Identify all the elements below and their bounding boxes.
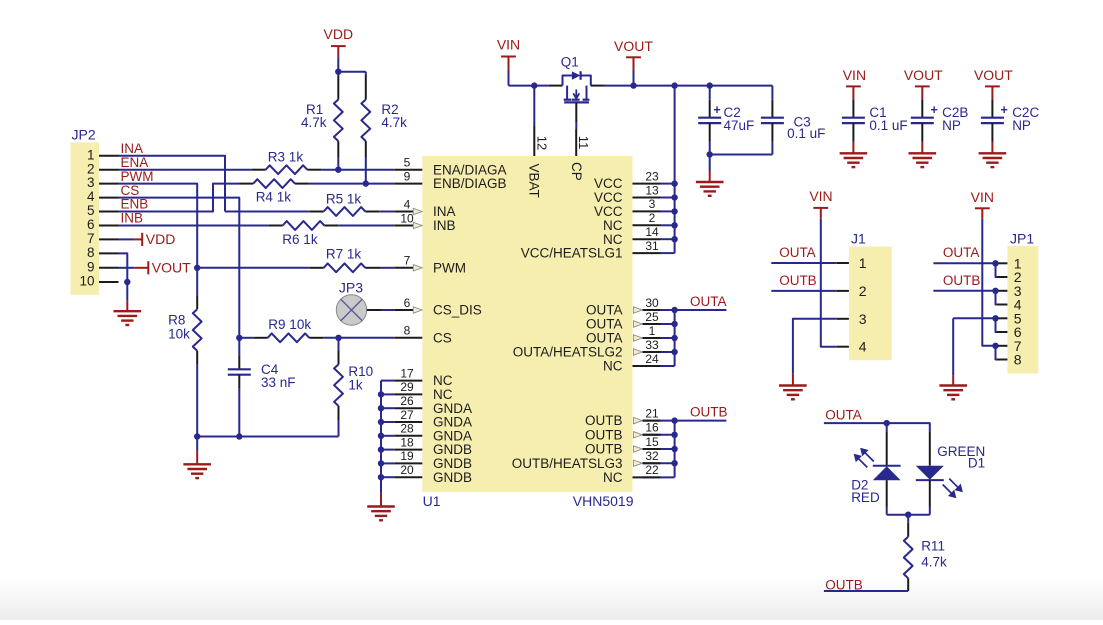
svg-text:0.1 uF: 0.1 uF <box>787 126 825 141</box>
junction VDD R1 <box>335 69 341 75</box>
svg-text:INB: INB <box>433 218 456 233</box>
U1 pin 21 wire <box>643 420 675 422</box>
wire PWM junction to R7 <box>197 267 310 269</box>
svg-text:0.1 uF: 0.1 uF <box>869 118 907 133</box>
resistor R11 lead top <box>907 523 909 537</box>
ground stub JP1 <box>952 375 954 385</box>
IC U1 body <box>422 156 632 492</box>
svg-text:22: 22 <box>645 463 659 477</box>
wire OUTB from bus <box>675 420 727 422</box>
capacitor C2 lead bottom <box>709 123 711 141</box>
JP1 pin 8 stub <box>997 359 1008 361</box>
U1 pin 28 stub <box>394 435 422 437</box>
svg-text:GNDB: GNDB <box>433 456 472 471</box>
svg-text:13: 13 <box>645 183 659 197</box>
connector JP1 body <box>1007 246 1038 374</box>
junction JP2-10 <box>124 279 130 285</box>
capacitor C1 lead bottom <box>852 123 854 142</box>
transistor Q1 channel contacts <box>566 86 568 99</box>
svg-text:VCC/HEATSLG1: VCC/HEATSLG1 <box>521 246 623 261</box>
wire INA to R5 <box>225 211 310 213</box>
supply stub C2B <box>921 86 923 99</box>
wire rail VIN to Q1 <box>509 85 549 87</box>
svg-text:NC: NC <box>603 232 623 247</box>
U1 pin 28 wire <box>381 435 394 437</box>
svg-text:JP3: JP3 <box>339 279 363 295</box>
svg-text:16: 16 <box>645 421 659 435</box>
capacitor C2B lead top <box>921 99 923 117</box>
svg-text:INB: INB <box>121 211 144 226</box>
svg-text:9: 9 <box>87 259 95 274</box>
VIN supply stub JP1 <box>981 208 983 219</box>
bottom page-edge shading <box>0 578 1103 620</box>
wire JP3 to U1 pin6 <box>367 309 381 311</box>
LED D1 triangle <box>916 466 944 480</box>
junction GND bus 20 <box>378 474 384 480</box>
svg-text:33: 33 <box>645 338 659 352</box>
LED D1 cathode bar <box>916 479 944 481</box>
U1 pin 30 arrow <box>634 307 643 313</box>
ground stub JP2 <box>126 300 128 311</box>
JP2 pin 1 stub <box>99 155 119 157</box>
U1 pin 32 wire <box>643 462 675 464</box>
J1 pin 3 stub <box>837 318 849 320</box>
transistor Q1 body-diode bar <box>579 71 581 80</box>
wire PWM JP2-3 east then south to R7 row <box>119 184 198 268</box>
resistor R8 lead top <box>196 295 198 309</box>
wire JP1-7 to JP1-8 <box>996 346 997 360</box>
U1 pin 18 wire <box>381 449 394 451</box>
U1 pin 30 wire <box>643 309 675 311</box>
svg-text:4.7k: 4.7k <box>381 115 407 130</box>
U1 pin 11 stub <box>575 129 577 156</box>
VCC bus vertical <box>674 86 676 254</box>
ground left rail <box>183 463 211 465</box>
svg-text:OUTB: OUTB <box>690 404 728 419</box>
resistor R5 lead right <box>365 211 379 213</box>
U1 pin 15 wire <box>643 448 675 450</box>
junction JP1-7 <box>992 343 998 349</box>
svg-text:U1: U1 <box>423 493 441 509</box>
U1 pin 30 stub <box>643 309 661 311</box>
capacitor C2B <box>911 117 934 119</box>
wire VOUT down to rail <box>633 71 635 86</box>
LED D2 lead bottom <box>886 480 888 506</box>
svg-text:11: 11 <box>576 136 591 150</box>
svg-text:OUTA: OUTA <box>586 317 623 332</box>
svg-text:25: 25 <box>645 310 659 324</box>
svg-text:VDD: VDD <box>146 231 176 247</box>
svg-text:OUTA: OUTA <box>825 407 862 422</box>
VDD supply bar top <box>331 45 346 47</box>
svg-text:VOUT: VOUT <box>152 259 191 275</box>
VDD terminal bar <box>141 233 143 246</box>
junction GND bus 28 <box>378 433 384 439</box>
junction C2 ground <box>707 151 713 157</box>
wire Q1 gate to CP <box>575 102 577 122</box>
svg-text:R5 1k: R5 1k <box>326 191 362 206</box>
U1 pin 8 stub <box>394 337 422 339</box>
svg-text:CS: CS <box>433 330 452 345</box>
svg-text:NC: NC <box>603 359 623 374</box>
U1 pin 32 arrow <box>634 460 643 466</box>
svg-text:6: 6 <box>87 217 95 232</box>
svg-text:OUTA: OUTA <box>586 303 623 318</box>
resistor R9 <box>268 333 310 342</box>
junction GND bus 29 <box>378 391 384 397</box>
VOUT supply bar <box>626 56 641 58</box>
svg-text:30: 30 <box>645 296 659 310</box>
svg-text:NC: NC <box>603 470 623 485</box>
svg-text:OUTB: OUTB <box>779 273 817 288</box>
U1 pin 22 wire <box>643 476 675 478</box>
wire C2 C3 bottoms <box>710 154 773 156</box>
U1 pin 22 stub <box>633 476 661 478</box>
svg-text:NC: NC <box>433 373 453 388</box>
ground stub left rail <box>196 451 198 465</box>
svg-text:ENA: ENA <box>121 155 149 170</box>
wire rail VOUT to C3 <box>634 85 773 87</box>
U1 pin 9 stub <box>394 183 422 185</box>
svg-text:29: 29 <box>400 380 414 394</box>
svg-text:1: 1 <box>649 324 656 338</box>
svg-text:R7 1k: R7 1k <box>326 246 362 261</box>
U1 pin 23 stub <box>633 183 661 185</box>
resistor R10 <box>334 364 343 406</box>
svg-text:2: 2 <box>87 161 95 176</box>
VDD terminal stub <box>134 238 142 240</box>
svg-text:23: 23 <box>645 169 659 183</box>
wire OUTA to J1-1 <box>771 262 836 264</box>
svg-text:INA: INA <box>121 141 144 156</box>
VIN supply bar C1 <box>846 85 861 87</box>
svg-text:17: 17 <box>400 366 414 380</box>
JP1 pin 4 stub <box>997 304 1008 306</box>
U1 pin 1 stub <box>643 337 661 339</box>
junction VCC bus 2 <box>671 222 677 228</box>
transistor Q1 channel feet <box>564 99 572 101</box>
wire PWM junction to R8 <box>196 268 198 295</box>
svg-text:NP: NP <box>942 118 961 133</box>
svg-text:GNDA: GNDA <box>433 415 472 430</box>
resistor R4 lead right <box>295 183 309 185</box>
wire JP2-9 to VOUT terminal <box>119 267 135 269</box>
svg-text:19: 19 <box>400 449 414 463</box>
U1 pin 14 stub <box>633 238 661 240</box>
U1 pin 6 arrow <box>413 307 422 313</box>
U1 pin 13 stub <box>633 197 661 199</box>
resistor R8 <box>193 309 202 351</box>
resistor R2 <box>361 100 370 142</box>
VOUT supply bar C2B <box>915 85 930 87</box>
JP2 pin 2 stub <box>99 169 119 171</box>
wire OUTA LED top <box>824 423 930 432</box>
JP1 pin 7 stub <box>997 345 1008 347</box>
resistor R4 lead left <box>240 183 254 185</box>
svg-text:+: + <box>713 103 720 117</box>
svg-text:OUTB: OUTB <box>585 413 623 428</box>
U1 pin 13 wire <box>661 197 675 199</box>
U1 pin 20 stub <box>394 476 422 478</box>
connector JP2 body <box>71 142 99 294</box>
junction VCC bus 14 <box>671 236 677 242</box>
U1 pin 33 stub <box>643 351 661 353</box>
resistor R1 lead top <box>337 76 339 100</box>
wire JP1-5 to JP1-6 <box>996 318 997 332</box>
svg-text:NP: NP <box>1012 118 1031 133</box>
wire JP1 ground drop <box>952 318 954 375</box>
U1 pin 23 wire <box>661 183 675 185</box>
svg-text:5: 5 <box>404 156 411 170</box>
resistor R11 <box>904 537 913 579</box>
junction OUTA bus 33 <box>671 349 677 355</box>
svg-text:VIN: VIN <box>843 67 866 83</box>
U1 pin 10 stub <box>394 225 413 227</box>
svg-text:GNDB: GNDB <box>433 470 472 485</box>
svg-text:Q1: Q1 <box>561 55 579 70</box>
svg-text:PWM: PWM <box>121 169 154 184</box>
wire R4 to U1 pin9 <box>309 183 394 185</box>
wire J1-3 to ground <box>793 319 837 374</box>
resistor R4 <box>253 179 295 188</box>
svg-text:4.7k: 4.7k <box>301 115 327 130</box>
junction LED R11 <box>905 512 911 518</box>
wire JP1-1 to JP1-2 <box>996 263 997 277</box>
svg-text:OUTA/HEATSLG2: OUTA/HEATSLG2 <box>513 345 623 360</box>
U1 pin 19 stub <box>394 462 422 464</box>
junction rail C2 <box>707 82 713 88</box>
capacitor C3 lead top <box>771 86 773 100</box>
svg-text:1: 1 <box>87 147 95 162</box>
svg-text:ENB/DIAGB: ENB/DIAGB <box>433 176 507 191</box>
junction R1 ENA <box>335 167 341 173</box>
U1 pin 26 wire <box>381 407 394 409</box>
svg-text:6: 6 <box>404 296 411 310</box>
U1 pin 2 wire <box>661 224 675 226</box>
JP2 pin 4 stub <box>99 197 119 199</box>
junction OUTA bus 1 <box>671 335 677 341</box>
svg-text:+: + <box>1001 103 1008 117</box>
svg-text:2: 2 <box>649 211 656 225</box>
svg-text:1: 1 <box>859 255 867 271</box>
transistor Q1 body-diode triangle <box>572 71 581 79</box>
wire OUTB to JP1-3 <box>933 290 996 292</box>
VOUT supply stub <box>633 57 635 70</box>
VIN supply stub J1 <box>820 208 822 219</box>
wire OUTB LED bottom <box>824 590 908 592</box>
wire INB JP2-6 to R6 <box>119 225 269 227</box>
VIN supply bar J1 <box>813 207 828 209</box>
svg-text:ENB: ENB <box>121 197 149 212</box>
svg-text:VCC: VCC <box>594 176 623 191</box>
JP1 pin 1 stub <box>997 262 1008 264</box>
junction OUTA D2 <box>884 420 890 426</box>
svg-text:8: 8 <box>87 245 95 260</box>
capacitor C2C <box>981 117 1004 119</box>
resistor R5 <box>324 207 366 216</box>
svg-text:OUTB/HEATSLG3: OUTB/HEATSLG3 <box>512 456 623 471</box>
svg-text:14: 14 <box>645 225 659 239</box>
ground JP1 <box>939 384 967 386</box>
U1 pin 33 arrow <box>634 349 643 355</box>
wire R5 to U1 pin4 <box>379 211 394 213</box>
LED D2 light arrows <box>855 449 874 467</box>
junction rail C4 <box>236 433 242 439</box>
wire rail to ground <box>196 437 198 451</box>
supply stub C1 <box>852 86 854 99</box>
U1 pin 7 stub <box>394 267 413 269</box>
capacitor C3 lead bottom <box>771 123 773 141</box>
junction rail VOUT <box>630 82 636 88</box>
junction OUTB bus 21 <box>671 417 677 423</box>
svg-text:10k: 10k <box>168 326 190 341</box>
wire VDD to R1 R2 <box>338 72 366 76</box>
svg-text:GNDB: GNDB <box>433 442 472 457</box>
transistor Q1 source lead <box>549 85 563 87</box>
svg-text:R6 1k: R6 1k <box>282 232 318 247</box>
svg-text:VOUT: VOUT <box>614 38 653 54</box>
svg-text:OUTA: OUTA <box>779 245 816 260</box>
U1 pin 29 stub <box>394 393 422 395</box>
ground stub C2B <box>921 142 923 153</box>
svg-text:R4 1k: R4 1k <box>256 190 292 205</box>
wire R6 to U1 pin10 <box>338 225 394 227</box>
svg-text:JP2: JP2 <box>72 127 96 143</box>
U1 pin 26 stub <box>394 407 422 409</box>
VOUT terminal bar <box>147 261 149 274</box>
junction CS C4 <box>236 335 242 341</box>
U1 pin 3 stub <box>633 210 661 212</box>
svg-text:32: 32 <box>645 449 659 463</box>
svg-text:1k: 1k <box>348 378 363 393</box>
svg-text:15: 15 <box>645 435 659 449</box>
svg-text:R3 1k: R3 1k <box>268 150 304 165</box>
junction JP1-5 <box>992 315 998 321</box>
capacitor C4 lead top <box>238 338 240 356</box>
svg-text:OUTB: OUTB <box>943 273 981 288</box>
U1 pin 2 stub <box>633 224 661 226</box>
junction rail VCC bus <box>671 82 677 88</box>
JP2 pin 7 stub <box>99 238 119 240</box>
U1 pin 29 wire <box>381 393 394 395</box>
JP1 pin 6 stub <box>997 331 1008 333</box>
svg-text:4.7k: 4.7k <box>921 555 947 570</box>
transistor Q1 drain lead <box>591 85 604 87</box>
U1 pin 32 stub <box>643 462 661 464</box>
wire VIN to JP1-7 <box>982 219 996 346</box>
svg-text:VCC: VCC <box>594 204 623 219</box>
svg-text:3: 3 <box>87 175 95 190</box>
junction VCC bus 13 <box>671 194 677 200</box>
svg-text:4: 4 <box>404 197 411 211</box>
wire R3 to U1 pin5 <box>321 169 394 171</box>
resistor R7 <box>324 263 366 272</box>
svg-text:CP: CP <box>569 162 584 181</box>
junction OUTB bus 32 <box>671 460 677 466</box>
svg-text:VBAT: VBAT <box>527 164 542 198</box>
resistor R9 lead right <box>309 337 323 339</box>
junction JP1-1 <box>992 260 998 266</box>
svg-text:CS: CS <box>121 183 140 198</box>
JP1 pin 5 stub <box>997 317 1008 319</box>
U1 pin 21 arrow <box>634 417 643 423</box>
U1 pin 24 stub <box>633 365 661 367</box>
wire C2 junction to ground <box>709 155 711 172</box>
junction OUTA bus 25 <box>671 321 677 327</box>
capacitor C2 <box>698 117 721 119</box>
svg-text:33 nF: 33 nF <box>261 375 296 390</box>
svg-text:3: 3 <box>649 197 656 211</box>
ground stub C2C <box>991 142 993 153</box>
wire ENA JP2-2 to R3 <box>119 169 252 171</box>
junction rail VBAT <box>531 82 537 88</box>
U1 pin 7 arrow <box>413 265 422 271</box>
svg-text:OUTA: OUTA <box>943 245 980 260</box>
U1 pin 19 wire <box>381 462 394 464</box>
wire R9 to U1 pin8 <box>323 337 394 339</box>
U1 pin 4 arrow <box>413 208 422 214</box>
jumper JP3 circle <box>336 295 366 325</box>
U1 pin 1 wire <box>643 337 675 339</box>
VDD supply stub <box>337 46 339 57</box>
U1 pin 25 arrow <box>634 321 643 327</box>
resistor R2 lead top <box>365 76 367 100</box>
ground C2B <box>909 152 937 154</box>
U1 pin 27 wire <box>381 421 394 423</box>
svg-text:4: 4 <box>859 339 867 355</box>
U1 pin 31 wire <box>661 252 675 254</box>
JP2 pin 10 stub <box>99 281 119 283</box>
svg-text:24: 24 <box>645 352 659 366</box>
ground U1 <box>367 505 395 507</box>
svg-text:GNDA: GNDA <box>433 428 472 443</box>
transistor Q1 gate plate <box>564 101 589 103</box>
resistor R8 lead bottom <box>196 351 198 365</box>
svg-text:VIN: VIN <box>497 37 520 53</box>
wire CS JP2-4 east then south to R9 row <box>119 198 240 338</box>
ground stub C2 <box>709 171 711 182</box>
resistor R3 <box>266 165 308 174</box>
wire CS to R9 <box>239 337 254 339</box>
OUTB bus vertical <box>674 421 676 478</box>
junction OUTA bus 30 <box>671 307 677 313</box>
wire JP2-8 south to JP2-10 <box>119 253 128 282</box>
U1 pin 31 stub <box>633 252 661 254</box>
junction R2 ENB <box>363 180 369 186</box>
svg-text:31: 31 <box>645 239 659 253</box>
capacitor C1 lead top <box>852 99 854 117</box>
svg-text:3: 3 <box>859 311 867 327</box>
svg-text:9: 9 <box>404 169 411 183</box>
svg-text:JP1: JP1 <box>1010 231 1034 247</box>
JP1 pin 2 stub <box>997 276 1008 278</box>
VOUT terminal stub <box>134 267 148 269</box>
svg-text:VIN: VIN <box>809 188 832 204</box>
LED D2 triangle <box>873 466 901 480</box>
LED D1 light arrows <box>943 479 962 497</box>
svg-text:10: 10 <box>79 274 94 289</box>
svg-text:OUTA: OUTA <box>586 331 623 346</box>
ground C2C <box>979 152 1007 154</box>
supply stub C2C <box>991 86 993 99</box>
junction R9 R10 <box>335 335 341 341</box>
capacitor C2B lead bottom <box>921 123 923 142</box>
wire OUTA to JP1-1 <box>933 262 996 264</box>
wire INA JP2-1 east then south <box>119 156 226 212</box>
wire JP1-3 to JP1-4 <box>996 291 997 305</box>
junction JP1-3 <box>992 288 998 294</box>
JP2 pin 5 stub <box>99 211 119 213</box>
